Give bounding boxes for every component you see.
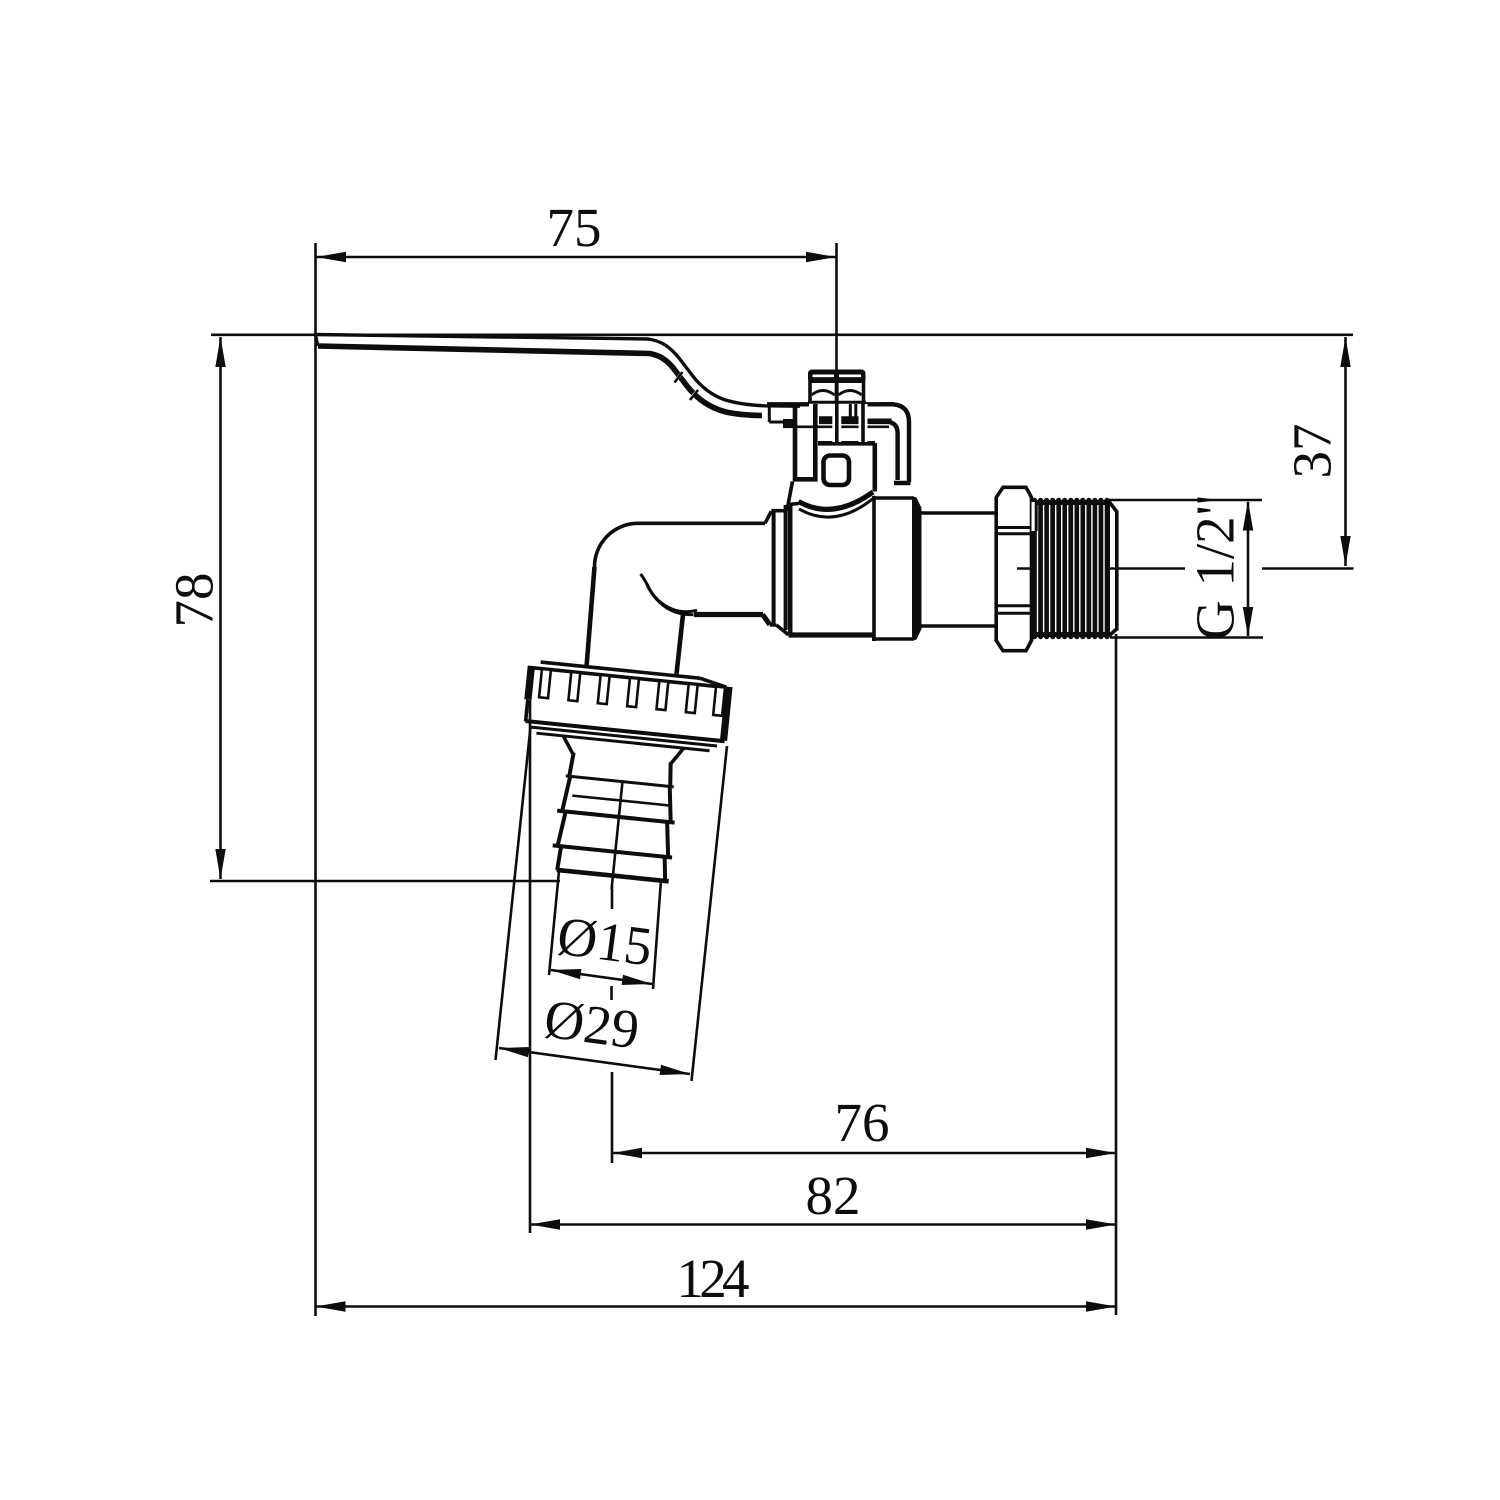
elbow inner fillet arcs [641, 574, 698, 612]
bonnet left slant [788, 482, 793, 508]
bracket lower plate tab [783, 419, 793, 428]
neck between flange and hex [922, 511, 998, 515]
spout horizontal tube top edge [637, 521, 765, 525]
bracket right hook [880, 404, 909, 482]
spout horizontal tube bottom edge [694, 612, 763, 617]
extension line: barb centre vertical [611, 1072, 614, 1163]
hose barb neck [569, 752, 573, 776]
svg-text:Ø15: Ø15 [554, 905, 656, 978]
hose nut top face [541, 662, 700, 678]
svg-text:124: 124 [677, 1248, 750, 1309]
svg-text:37: 37 [1282, 424, 1343, 479]
bracket step [768, 406, 771, 423]
hose nut and barb (tilted) [506, 661, 733, 899]
svg-text:75: 75 [547, 197, 602, 258]
bracket thin line [783, 425, 889, 428]
stem centre vertical [832, 404, 841, 442]
thread end chamfer [1109, 502, 1117, 512]
handle lever top edge [316, 335, 801, 407]
barb axis centreline [612, 782, 623, 889]
stem square hole [824, 456, 850, 486]
dimension 82 [530, 1223, 1116, 1226]
dimension 124 [316, 1305, 1117, 1308]
extension line: nut left vertical [529, 700, 532, 1233]
dimension O29 [499, 1048, 690, 1074]
packing flange disc [872, 496, 876, 641]
bonnet shoulder arcs [799, 492, 874, 509]
stem right vertical [859, 404, 868, 442]
screw hex head [808, 370, 866, 384]
thread runout relief [1032, 502, 1037, 531]
hex nut [996, 487, 1031, 650]
extension line: handle tip / left vertical datum [314, 243, 317, 1316]
centreline dashes below barb [611, 886, 614, 909]
stem short verticals [849, 404, 852, 417]
knurl slots [539, 669, 551, 698]
dimension O15 [551, 970, 652, 984]
bracket top bar [767, 402, 809, 406]
extension line: stem centreline vertical [835, 243, 838, 371]
svg-text:76: 76 [835, 1092, 890, 1153]
barb ring 2 [558, 811, 566, 846]
dimension 76 [612, 1152, 1116, 1155]
extension line: thread OD top [1105, 499, 1262, 502]
thread crests and gaps [1037, 505, 1039, 632]
spout right edge [677, 615, 684, 675]
svg-text:78: 78 [164, 573, 225, 628]
dimension G 1/2" [1247, 502, 1250, 636]
left end cap rings [765, 511, 771, 523]
centreline of valve axis [1017, 567, 1185, 570]
extension line: bottom of 78 at barb tip [210, 880, 560, 883]
male thread G1/2 body [1032, 500, 1111, 637]
extension line: thread OD bottom [1110, 636, 1263, 639]
extension line: thread right end vertical [1115, 634, 1118, 1315]
valve body cylinder bottom edge [789, 632, 874, 637]
barb cross centreline [572, 796, 671, 806]
bracket lower thick bar [819, 418, 892, 424]
svg-text:Ø29: Ø29 [541, 988, 643, 1061]
hose nut knurled band [524, 665, 535, 700]
stem square [818, 441, 875, 446]
spout left edge [587, 567, 595, 667]
shoulder to barb [562, 736, 575, 754]
nut bottom chamfer lines [531, 727, 717, 746]
dimension 78 [219, 337, 222, 879]
washer line under stem [819, 416, 860, 419]
handle bend creases [675, 374, 682, 382]
svg-text:82: 82 [806, 1165, 861, 1226]
dimension 75 [316, 256, 836, 259]
barb ring 3 / end [557, 846, 561, 870]
dimension 37 [1344, 337, 1347, 566]
handle clamp bar (front) [795, 404, 815, 479]
handle tip end [316, 335, 319, 347]
extension line: top horizontal datum [211, 333, 1353, 336]
elbow outer arc [594, 523, 637, 567]
svg-text:G 1/2": G 1/2" [1185, 494, 1246, 640]
handle lever bottom edge [318, 346, 762, 416]
barb ring 1 [562, 776, 570, 811]
